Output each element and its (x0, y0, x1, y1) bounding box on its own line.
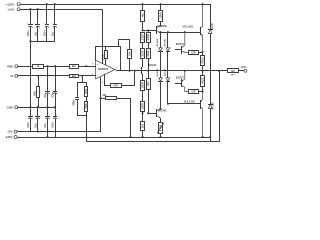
svg-text:BA159: BA159 (211, 23, 214, 31)
diode D1 1N4148 (159, 31, 161, 33)
resistor R11 10k ladder A (141, 33, 145, 43)
resistor R12 4k7 ladder A (141, 49, 145, 59)
svg-text:+: + (51, 89, 53, 91)
svg-text:2k2: 2k2 (146, 81, 150, 86)
capacitor C10 100n REF to GND (54, 65, 56, 67)
wire decoupling bus to ground (31, 41, 55, 43)
resistor R9 1k5 from +125V (142, 3, 144, 5)
svg-text:-125V: -125V (5, 135, 13, 139)
svg-text:MJL1302: MJL1302 (184, 100, 195, 104)
svg-text:3: 3 (92, 64, 94, 66)
svg-text:OUT: OUT (241, 65, 247, 69)
svg-text:10u: 10u (51, 31, 55, 36)
op-amp U1 NE5534 (96, 60, 115, 79)
wire VAS line to output bases (160, 32, 201, 34)
capacitor C3 100n +125V rail (46, 3, 48, 5)
svg-text:22R: 22R (191, 50, 196, 54)
svg-text:GND: GND (7, 105, 14, 109)
resistor R4 100k IN to GND (37, 75, 39, 77)
capacitor C1 100n +10V rail (29, 8, 31, 10)
resistor R16 100R ladder A lower2 (141, 102, 145, 112)
capacitor C2 10u +10V rail (37, 8, 39, 10)
svg-text:+: + (49, 114, 51, 116)
node REF line junction (85, 65, 87, 67)
wire feedback stub (82, 76, 84, 83)
svg-text:220R: 220R (146, 34, 150, 40)
svg-text:IN: IN (10, 74, 13, 78)
svg-text:100k: 100k (32, 90, 36, 96)
svg-text:22R: 22R (191, 90, 196, 94)
diode D6 BA159 lower catch (209, 104, 213, 106)
resistor R20 22R lower base stopper (189, 90, 199, 94)
resistor R3 3k3 IN series (70, 75, 79, 78)
wire comp loop over op-amp (96, 47, 121, 71)
svg-text:100n: 100n (26, 30, 30, 37)
svg-text:10u: 10u (43, 123, 47, 128)
svg-text:+: + (51, 23, 53, 25)
svg-text:4: 4 (101, 82, 103, 84)
svg-text:680p: 680p (73, 99, 76, 105)
svg-text:+10V: +10V (7, 7, 14, 11)
svg-text:3k3: 3k3 (72, 74, 77, 78)
svg-text:MJL3281: MJL3281 (183, 24, 194, 28)
capacitor C11 22p compensation (105, 47, 107, 51)
node feedback junction (81, 75, 83, 77)
svg-text:4R7: 4R7 (231, 75, 236, 77)
svg-text:100n: 100n (43, 30, 47, 37)
svg-text:100n: 100n (26, 121, 30, 128)
resistor R8 100k feedback (86, 97, 88, 102)
svg-text:100k: 100k (85, 88, 88, 94)
wire comp hook pin8 (119, 40, 130, 50)
resistor R18 2k2 ladder B lower (147, 79, 151, 90)
diode D5 BA159 upper catch (209, 29, 213, 31)
resistor R1 1k REF series (33, 65, 44, 69)
resistor R7 100k feedback (86, 83, 88, 87)
svg-text:+: + (39, 114, 41, 116)
svg-text:47R: 47R (113, 84, 118, 88)
svg-text:+: + (44, 89, 46, 91)
capacitor C12 680p feedback (77, 83, 79, 98)
svg-text:10u: 10u (33, 31, 37, 36)
svg-text:1N4148: 1N4148 (157, 38, 159, 46)
svg-text:7: 7 (103, 60, 105, 62)
svg-text:2k2: 2k2 (140, 123, 144, 128)
svg-text:1N4148: 1N4148 (164, 38, 166, 46)
wire output sense column (218, 70, 220, 72)
resistor R22 0R22 lower emitter (201, 76, 205, 87)
resistor R14 4k7 ladder B (147, 49, 151, 59)
wire +10V rail drop to op-amp V+ (102, 10, 104, 64)
resistor R2 3k3 REF series (70, 65, 79, 69)
capacitor C8 100n -125V rail (54, 106, 56, 108)
resistor R13 220R ladder B (147, 29, 149, 31)
svg-text:MJE350: MJE350 (157, 24, 167, 28)
svg-text:100R: 100R (140, 82, 144, 88)
terminal OUT (239, 70, 244, 72)
svg-text:-10V: -10V (6, 130, 12, 134)
resistor R6 47R under op-amp (105, 75, 111, 86)
wire Q7 collector to -125V (200, 107, 202, 137)
svg-text:BC557: BC557 (176, 76, 185, 80)
svg-text:100R: 100R (140, 103, 144, 109)
svg-text:BD139: BD139 (148, 63, 157, 67)
wire BC546 base feed (149, 90, 157, 114)
svg-text:100R: 100R (146, 50, 150, 56)
trimpot VR1 470R bias adjust (160, 119, 162, 123)
capacitor C9 10u REF to GND (46, 65, 48, 67)
capacitor C4 10u +125V rail (54, 3, 56, 5)
svg-text:1N4148: 1N4148 (164, 68, 166, 76)
wire op-amp output (115, 70, 117, 71)
svg-text:+: + (56, 114, 58, 116)
svg-text:10u: 10u (43, 93, 47, 98)
svg-text:100n: 100n (51, 91, 55, 98)
svg-text:10k: 10k (127, 51, 131, 56)
wire D3 to bias transistor (160, 82, 162, 109)
svg-text:0R22: 0R22 (200, 77, 204, 84)
diode D2 1N4148 (167, 31, 169, 33)
capacitor C5 100n -10V rail (29, 106, 31, 108)
wire feedback to output bus (86, 116, 88, 142)
svg-text:+: + (32, 114, 34, 116)
resistor R23 68k V- branch (99, 97, 101, 99)
wire +125V down right column (210, 5, 212, 30)
svg-text:10u: 10u (33, 123, 37, 128)
wire -125V bridge to output return bus (210, 138, 212, 142)
svg-text:10R: 10R (231, 71, 235, 73)
resistor R15 100R ladder A lower (141, 81, 145, 91)
diode D4 1N4148 (167, 52, 169, 78)
resistor R17 2k2 ladder A bottom (142, 112, 144, 114)
svg-text:REF: REF (7, 64, 13, 68)
resistor R10 220R MJE350 emitter (159, 3, 161, 5)
svg-text:220R: 220R (140, 34, 144, 40)
svg-text:100R: 100R (140, 50, 144, 56)
svg-text:1k5: 1k5 (140, 13, 144, 18)
resistor R19 22R upper base stopper (189, 51, 199, 55)
svg-text:0R22: 0R22 (200, 57, 204, 64)
wire D4 to lower base line (167, 82, 169, 104)
svg-text:NE5534: NE5534 (98, 67, 109, 71)
wire output return bus (87, 141, 220, 143)
capacitor C6 10u -10V rail (37, 106, 39, 108)
diode D3 1N4148 (160, 52, 162, 78)
svg-text:6: 6 (116, 68, 118, 70)
svg-text:BC547: BC547 (176, 42, 185, 46)
resistor R21 0R22 upper emitter (201, 56, 205, 66)
wire -10V rail rise to op-amp V- (100, 78, 102, 132)
resistor R5 10k comp to output bus (128, 50, 132, 59)
svg-text:100n: 100n (51, 121, 55, 128)
svg-text:1N4148: 1N4148 (157, 68, 159, 76)
capacitor C7 10u -125V rail (46, 106, 48, 108)
svg-text:220R: 220R (158, 12, 162, 18)
wire Q1 base (142, 29, 144, 31)
svg-text:100k: 100k (85, 103, 88, 109)
svg-text:+125V: +125V (6, 2, 15, 6)
inductor-resistor L1 10R output isolator (228, 69, 239, 73)
svg-text:BA159: BA159 (211, 102, 214, 110)
svg-text:3k3: 3k3 (72, 64, 77, 68)
svg-text:+: + (43, 23, 45, 25)
